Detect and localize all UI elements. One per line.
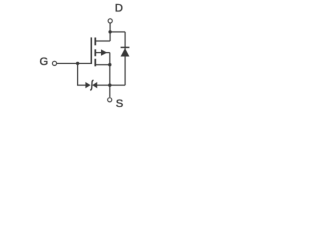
- svg-text:S: S: [116, 98, 123, 110]
- node: source net junction dot: [108, 84, 111, 87]
- svg-text:D: D: [115, 3, 123, 15]
- wire: D terminal down to drain corner: [109, 23, 111, 41]
- terminal G circle: [52, 61, 56, 65]
- wire: source vertical down to S terminal: [109, 53, 111, 98]
- node: source lead junction dot: [108, 63, 111, 66]
- wire: source lead: [95, 64, 110, 66]
- zener Z1 right triangle: [92, 82, 97, 88]
- zener Z1 center bar with hooks: [90, 80, 93, 90]
- wire: body-diode branch vertical: [124, 32, 126, 85]
- wire: drain lead into MOSFET: [95, 40, 110, 42]
- terminal D circle: [108, 19, 112, 23]
- transistor Q1 body arrow: [101, 49, 107, 55]
- wire: gate wire from G to gate plate: [57, 62, 91, 64]
- wire: body lead with arrow: [95, 52, 110, 54]
- node: gate junction dot: [76, 62, 79, 65]
- wire: drain node to body-diode branch: [110, 31, 125, 33]
- diode D1 cathode bar: [121, 46, 130, 48]
- zener Z1 left triangle: [85, 82, 90, 88]
- node: drain junction dot: [108, 30, 111, 33]
- transistor Q1 channel middle dash: [94, 49, 96, 56]
- transistor Q1 gate plate: [90, 37, 92, 64]
- wire: gate protection branch down and right: [78, 63, 86, 85]
- transistor Q1 channel bottom dash: [94, 59, 96, 67]
- terminal S circle: [108, 98, 112, 102]
- diode D1 triangle: [121, 48, 130, 56]
- svg-text:G: G: [39, 56, 48, 68]
- wire: zener to source net: [97, 84, 125, 86]
- transistor Q1 channel top dash: [94, 38, 96, 46]
